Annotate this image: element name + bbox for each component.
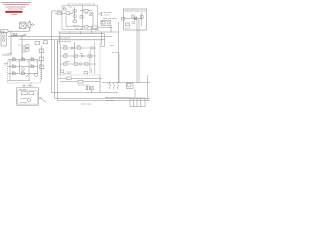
svg-text:xx x: xx x — [12, 57, 15, 59]
svg-text:xxxx xxxxx xx: xxxx xxxxx xx — [59, 37, 71, 39]
svg-text:xx x: xx x — [77, 45, 80, 47]
svg-text:xx xxx: xx xxx — [104, 15, 111, 17]
svg-text:xxxxx xxxx: xxxxx xxxx — [81, 104, 92, 106]
svg-text:xxx xx: xxx xx — [12, 33, 19, 35]
svg-text:xxxx xxxx: xxxx xxxx — [19, 89, 27, 91]
svg-text:xxxx xxx: xxxx xxx — [75, 29, 84, 31]
svg-text:xxx xx: xxx xx — [7, 53, 12, 55]
svg-text:xwmvx: xwmvx — [12, 14, 18, 16]
svg-text:xx xxx: xx xxx — [26, 85, 31, 87]
svg-text:xx: xx — [5, 64, 7, 66]
svg-text:xxx x: xxx x — [23, 34, 27, 36]
svg-text:xwmx xwvx xwmo: xwmx xwvx xwmo — [8, 8, 24, 10]
svg-text:xx xx: xx xx — [68, 7, 72, 9]
svg-text:xxx xxxx: xxx xxxx — [20, 102, 27, 104]
svg-text:xxx xxxx: xxx xxxx — [106, 100, 115, 102]
svg-text:xx x: xx x — [21, 71, 24, 73]
svg-text:xxxx xx: xxxx xx — [20, 22, 28, 24]
svg-text:xx xx: xx xx — [64, 53, 68, 55]
svg-text:xxx xx: xxx xx — [125, 27, 130, 29]
svg-text:xx xxxx: xx xxxx — [112, 52, 120, 54]
svg-text:xx x: xx x — [12, 71, 15, 73]
svg-text:xxx: xxx — [18, 44, 21, 46]
svg-text:xxx: xxx — [80, 53, 83, 55]
svg-text:xx: xx — [31, 64, 33, 66]
svg-text:xxx xx: xxx xx — [73, 25, 80, 27]
svg-text:xx xxx: xx xxx — [65, 61, 70, 63]
svg-text:xxx xx: xxx xx — [95, 29, 100, 31]
svg-text:xxxx xxxx xxxxx xxxxxx xxx: xxxx xxxx xxxxx xxxxxx xxx — [67, 4, 96, 6]
svg-text:xxxx: xxxx — [1, 31, 5, 33]
svg-text:xxx xxxx: xxx xxxx — [63, 73, 72, 75]
svg-text:xx x: xx x — [21, 57, 24, 59]
svg-text:xx x: xx x — [85, 13, 88, 15]
svg-text:xxxx xxx xxxxx: xxxx xxx xxxxx — [103, 18, 118, 20]
svg-text:xx: xx — [63, 6, 65, 8]
svg-text:xxxx xxx xxx: xxxx xxx xxx — [78, 85, 91, 87]
svg-text:x x x: x x x — [107, 83, 111, 85]
svg-text:xx xx: xx xx — [63, 45, 67, 47]
svg-text:xxxxx xxxxx xxxxxx xxx xx: xxxxx xxxxx xxxxxx xxx xx — [124, 10, 146, 12]
svg-text:xx: xx — [12, 64, 14, 66]
svg-text:xxxx xxxxx xx: xxxx xxxxx xx — [59, 41, 73, 43]
svg-text:xx x: xx x — [31, 57, 34, 59]
